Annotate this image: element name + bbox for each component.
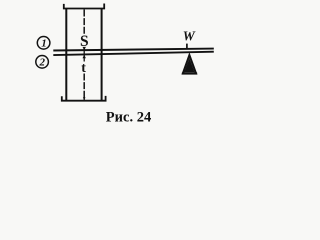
beam lower line <box>53 52 214 55</box>
dimension arrow S (points down to beam) <box>83 47 85 50</box>
svg-text:W: W <box>183 29 196 44</box>
circled 1 <box>37 37 50 50</box>
svg-text:t: t <box>81 61 86 76</box>
svg-text:Рис. 24: Рис. 24 <box>106 110 151 126</box>
beam upper line <box>53 49 214 51</box>
centerline lower dashed segment <box>83 74 85 101</box>
tube left wall <box>65 9 67 101</box>
fulcrum inner filled triangle <box>184 58 194 72</box>
centerline crossing beam <box>83 50 85 56</box>
dimension arrow t (points up to beam) <box>83 55 86 59</box>
circled 2 <box>36 56 49 69</box>
tube top flange <box>64 4 104 9</box>
svg-text:1: 1 <box>41 38 47 50</box>
centerline bottom arrowhead <box>83 97 86 100</box>
svg-text:S: S <box>80 33 89 50</box>
svg-text:2: 2 <box>39 57 46 69</box>
tube bottom flange <box>62 96 106 101</box>
centerline upper dashed segment <box>83 10 85 34</box>
tube right wall <box>101 9 103 101</box>
W pointer tick <box>186 44 188 49</box>
fulcrum base line <box>182 72 197 74</box>
fulcrum triangle outline <box>183 55 196 73</box>
